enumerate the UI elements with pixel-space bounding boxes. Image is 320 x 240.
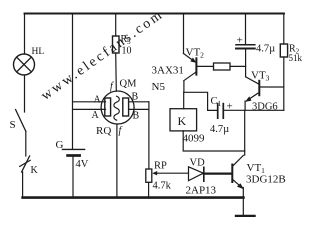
- svg-text:QM: QM: [120, 79, 138, 90]
- svg-text:B: B: [132, 92, 139, 103]
- gas sensor QM-N5: [92, 79, 140, 138]
- potentiometer RP 4.7k: [146, 161, 189, 192]
- resistor VT2 base (unlabeled): [214, 63, 231, 70]
- wire sensor electrode leads A (left pair): [73, 102, 106, 110]
- relay contact K: [20, 156, 39, 176]
- transistor VT3 3DG6: [245, 70, 284, 113]
- svg-text:4V: 4V: [76, 159, 89, 170]
- svg-text:4.7µ: 4.7µ: [210, 124, 229, 135]
- wire resistor to VT3 collector line: [230, 65, 246, 67]
- svg-text:K: K: [178, 114, 187, 128]
- wire C2 bottom to VT3 collector: [245, 49, 247, 77]
- wire switch S to contact K: [25, 131, 27, 156]
- wire sensor bottom heater lead to bottom rail: [116, 124, 118, 198]
- svg-text:RQ: RQ: [96, 125, 111, 137]
- relay K 4099: [170, 109, 205, 145]
- wire sensor top heater lead to R3: [115, 53, 118, 91]
- svg-text:4.7µ: 4.7µ: [256, 44, 275, 55]
- svg-text:f: f: [119, 126, 123, 137]
- wire bottom common rail: [23, 196, 244, 199]
- svg-text:www.elecfans.com: www.elecfans.com: [39, 7, 167, 104]
- battery G 4V: [56, 139, 89, 170]
- svg-text:3DG12B: 3DG12B: [246, 174, 286, 186]
- svg-text:4.7k: 4.7k: [153, 181, 172, 192]
- wire sensor electrode leads B (right pair): [130, 102, 149, 110]
- svg-text:VD: VD: [190, 158, 206, 169]
- svg-text:2AP13: 2AP13: [186, 185, 217, 197]
- wire diode to VT1 base (thick): [204, 173, 232, 175]
- wire battery branch from top rail: [72, 14, 74, 150]
- wire relay K bottom to VT1 collector node: [183, 131, 245, 151]
- wire node B leads down to RP: [148, 102, 150, 169]
- svg-text:B: B: [133, 111, 140, 122]
- wire battery to bottom rail: [72, 156, 74, 198]
- capacitor C1 4.7u: [210, 96, 233, 135]
- svg-text:S: S: [10, 119, 16, 131]
- wire RP bottom to rail: [148, 182, 150, 197]
- resistor R3 10: [113, 14, 132, 57]
- svg-text:3DG6: 3DG6: [252, 102, 278, 113]
- wire VT1 collector up to junction node: [244, 110, 246, 155]
- svg-text:3AX31: 3AX31: [152, 65, 184, 77]
- wire contact K to bottom rail: [22, 172, 24, 198]
- svg-text:+: +: [237, 35, 243, 47]
- svg-text:C1: C1: [211, 96, 222, 108]
- svg-text:HL: HL: [32, 47, 45, 57]
- svg-text:VT3: VT3: [251, 70, 270, 83]
- diode VD 2AP13: [186, 158, 217, 197]
- wire VT1 emitter to ground stub: [242, 188, 244, 216]
- wire VT2 collector node to C1: [184, 92, 217, 110]
- svg-text:f: f: [110, 81, 114, 92]
- svg-text:G: G: [56, 139, 64, 151]
- transistor VT1 3DG12B: [232, 155, 285, 189]
- svg-text:VT2: VT2: [186, 47, 205, 60]
- svg-text:RP: RP: [154, 161, 167, 172]
- svg-text:N5: N5: [152, 81, 166, 93]
- svg-text:A: A: [92, 110, 100, 121]
- wire top supply rail: [25, 13, 285, 15]
- switch S: [10, 110, 26, 132]
- transistor VT2 3AX31: [152, 14, 214, 93]
- wire C1 right plate to junction and R2 bottom: [223, 109, 283, 111]
- svg-text:4099: 4099: [183, 133, 206, 145]
- svg-text:K: K: [31, 165, 39, 176]
- wire VT3 emitter down to junction: [244, 101, 246, 110]
- lamp HL: [14, 47, 45, 75]
- svg-text:A: A: [94, 95, 102, 106]
- resistor R2 51k: [280, 14, 302, 111]
- wire lamp to switch S: [24, 75, 26, 112]
- wire left branch rail to lamp: [24, 14, 26, 55]
- wire VT2 collector node down to relay K: [183, 92, 185, 108]
- capacitor C2 4.7u: [236, 14, 275, 55]
- svg-text:51k: 51k: [289, 53, 303, 63]
- ground bar below VT1: [236, 215, 255, 217]
